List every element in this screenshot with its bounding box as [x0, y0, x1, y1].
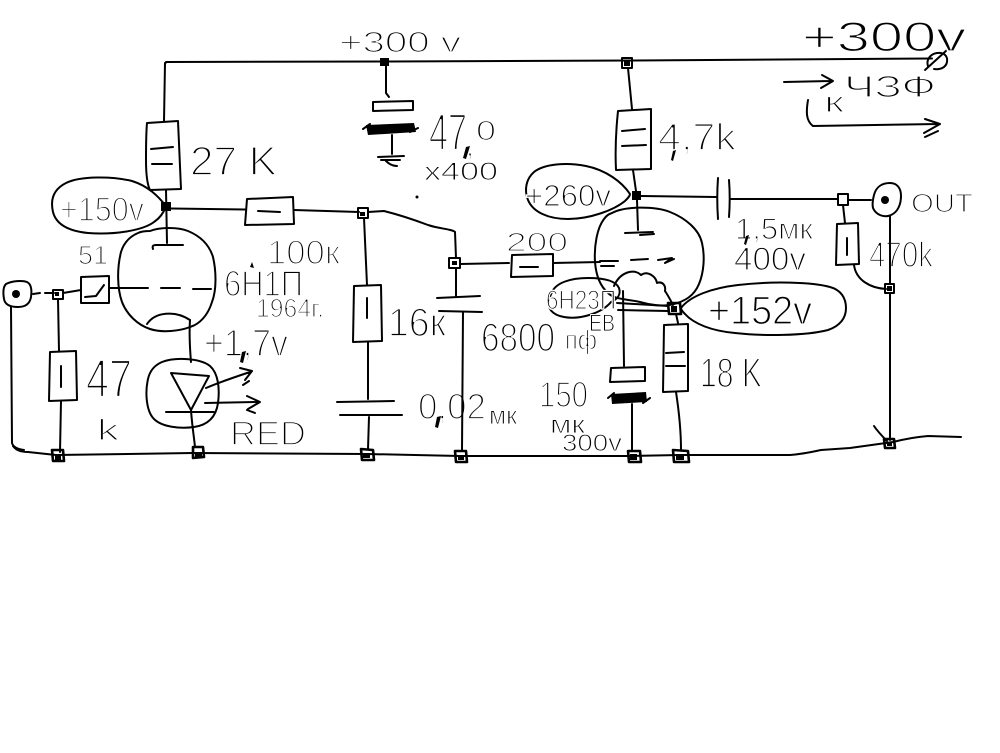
arrow lower right — [807, 100, 940, 137]
wire node2 bend down to node3 — [368, 211, 456, 258]
node bus B2 (LED) — [193, 447, 204, 458]
wire terminal to node4 — [33, 293, 54, 294]
wire rail node B down to 4.7k — [628, 68, 632, 109]
arrow to УЗФ — [784, 75, 833, 88]
wire node7 to OUT terminal — [848, 199, 871, 201]
input terminal blob — [3, 281, 31, 307]
node bus B5 (150мк) — [628, 451, 641, 462]
svg-text:27 K: 27 K — [190, 138, 277, 184]
LED D1 cathode bar — [166, 411, 214, 413]
node N6 (cathode) — [668, 303, 681, 314]
tube V2 envelope — [595, 208, 704, 306]
wire cloud to 150мк — [623, 291, 624, 366]
svg-text:150: 150 — [539, 374, 588, 415]
node N5 (tube2 plate, +260v) — [632, 191, 641, 200]
resistor R1 27K body — [146, 121, 181, 190]
svg-text:OUT: OUT — [911, 188, 973, 218]
resistor R4 47k body — [49, 351, 77, 401]
wire rail to 27K — [164, 63, 165, 121]
wire 4.7k to node5 — [633, 170, 636, 191]
wire node5 down to plate — [637, 200, 638, 230]
wire node4 down to 47k — [58, 299, 59, 351]
svg-text:мк: мк — [489, 402, 518, 430]
balloon 6Н23П label — [549, 278, 620, 318]
wire 200 to grid — [553, 262, 600, 263]
svg-text:47: 47 — [86, 349, 132, 409]
wire 100K to node2 — [294, 210, 359, 212]
node bus B7 (out divider) — [884, 439, 895, 448]
node bus B6 (18K) — [673, 450, 689, 462]
wire 51 box to grid — [109, 287, 125, 289]
capacitor C1 scribble plate — [366, 123, 416, 135]
wire C1 to ground squiggle — [391, 135, 393, 154]
balloon +150v — [52, 177, 166, 233]
svg-text:+300 v: +300 v — [339, 27, 462, 59]
node N4 (input) — [53, 290, 63, 299]
OUT terminal blob — [873, 183, 901, 216]
svg-text:18 K: 18 K — [700, 349, 762, 396]
LED D1 arrows — [205, 368, 260, 413]
wire OUT down through node8 to bus — [889, 216, 891, 440]
balloon +260v — [526, 164, 630, 219]
resistor R4 inner stripe — [60, 366, 62, 387]
resistor R2 inner stripe — [258, 211, 280, 212]
balloon tail doubled to node6 — [617, 303, 668, 311]
resistor R3 inner squiggle — [85, 285, 104, 297]
capacitor C3 6800пф plates — [437, 296, 482, 312]
svg-text:16к: 16к — [388, 301, 446, 345]
resistor R6 200 body — [511, 254, 553, 277]
capacitor C1 47.0 top plate — [373, 101, 413, 111]
svg-text:ЧЗФ: ЧЗФ — [844, 69, 936, 104]
tube V1 plate bar — [153, 245, 183, 249]
svg-text:+1,7v: +1,7v — [204, 323, 288, 365]
tube V2 plate bar — [625, 232, 654, 235]
resistor R9 inner stripe — [846, 238, 848, 255]
svg-text:0: 0 — [476, 115, 496, 146]
svg-text:+150v: +150v — [60, 191, 144, 229]
node N7 (output) — [838, 194, 848, 205]
balloon +152v — [681, 283, 846, 335]
svg-text:+260v: +260v — [525, 178, 612, 213]
svg-text:300v: 300v — [562, 430, 622, 457]
speck — [416, 196, 419, 199]
capacitor C4 150мк top plate — [610, 367, 645, 382]
wire cathode to LED — [190, 320, 191, 362]
LED D1 triangle — [171, 373, 209, 410]
tube V1 cathode arc — [147, 314, 190, 324]
node bus B4 (6800) — [455, 451, 467, 462]
wire 47k to bus — [60, 401, 61, 452]
svg-text:к: к — [824, 86, 845, 119]
wire 18K to bus — [676, 392, 681, 450]
wire node7 down to 470k — [843, 205, 845, 223]
wire node3 to 200 — [460, 263, 509, 264]
comma marks — [240, 146, 749, 428]
tube V1 6Н1П envelope — [118, 228, 215, 331]
svg-text:RED: RED — [230, 415, 306, 453]
svg-text:x400: x400 — [424, 158, 498, 186]
resistor R3 51 body — [81, 276, 109, 303]
wire cathode to node6 — [665, 291, 673, 305]
wire node5 to coupling cap — [641, 196, 716, 197]
wire node4 to 51 box — [63, 290, 81, 293]
tube V1 grid dashes — [125, 288, 211, 289]
tube V2 cathode squiggle — [614, 272, 665, 291]
wire 16K to 0.02 cap — [367, 342, 369, 399]
wire cap to out node — [731, 198, 838, 200]
tube V2 grid dashes — [600, 258, 674, 266]
capacitor C5 1.5мк plates — [717, 178, 730, 219]
wire node2 down to 16K — [364, 218, 367, 285]
resistor R1 inner stripes — [151, 147, 173, 164]
wire C4 to bus — [631, 404, 633, 450]
node bus B1 — [52, 450, 64, 461]
wire rail node A down to 47.0 cap — [386, 66, 389, 97]
node plate N1 (+150v point) — [161, 202, 171, 211]
resistor R2 100K body — [245, 197, 294, 225]
svg-text:1964г.: 1964г. — [256, 293, 324, 323]
svg-text:пф: пф — [565, 325, 597, 355]
wire 470k to node8 — [854, 265, 886, 289]
wire LED to bus — [191, 410, 195, 447]
svg-text:51: 51 — [78, 240, 108, 270]
svg-text:+152v: +152v — [708, 289, 812, 333]
svg-text:6800: 6800 — [481, 316, 555, 360]
resistor R5 4.7k body — [616, 109, 651, 170]
node rail junction A (above 47.0 cap) — [380, 58, 389, 66]
svg-text:+300v: +300v — [802, 13, 966, 60]
wire 27K to plate node — [166, 190, 167, 243]
resistor R7 inner stripe — [366, 298, 368, 318]
svg-text:470k: 470k — [869, 234, 934, 275]
resistor R9 470k body — [836, 223, 859, 265]
wire node to 100K — [171, 209, 245, 210]
svg-text:47: 47 — [429, 104, 467, 162]
wire node6 to 18K — [676, 314, 678, 323]
resistor R8 18K body — [663, 324, 688, 392]
node N2 (above 16K) — [358, 208, 368, 218]
LED D1 envelope — [146, 359, 218, 428]
wire top +300V rail — [165, 59, 932, 65]
node N8 — [885, 284, 894, 293]
resistor R8 inner stripes — [666, 352, 685, 366]
wire terminal down left side — [11, 307, 24, 450]
svg-text:200: 200 — [506, 227, 568, 257]
resistor R6 inner stripe — [520, 266, 538, 268]
OUT terminal dot — [881, 196, 889, 204]
node rail junction B (above 4.7k) — [622, 58, 632, 68]
wire node3 to 6800 cap — [455, 268, 457, 296]
capacitor C4 scribble plate — [611, 392, 647, 404]
wire rail end slashed terminal — [925, 50, 947, 70]
svg-text:k: k — [97, 414, 120, 447]
resistor R7 16K body — [353, 285, 382, 342]
wire 6800 cap to bus — [462, 312, 463, 451]
node bus B3 (0.02) — [361, 449, 374, 460]
ground symbol (scribbled) — [378, 156, 404, 166]
svg-text:400v: 400v — [734, 241, 806, 277]
ground bus wire — [13, 436, 961, 456]
input terminal dot — [12, 290, 20, 298]
svg-text:4,7k: 4,7k — [658, 117, 737, 159]
resistor R5 inner stripes — [622, 129, 646, 146]
node N3 (6800pf top) — [449, 258, 460, 268]
wire 0.02 cap to bus — [368, 417, 369, 449]
svg-text:0,02: 0,02 — [418, 386, 486, 427]
capacitor C2 0.02мк plates — [337, 401, 402, 415]
bus tick near B7 — [874, 426, 887, 441]
